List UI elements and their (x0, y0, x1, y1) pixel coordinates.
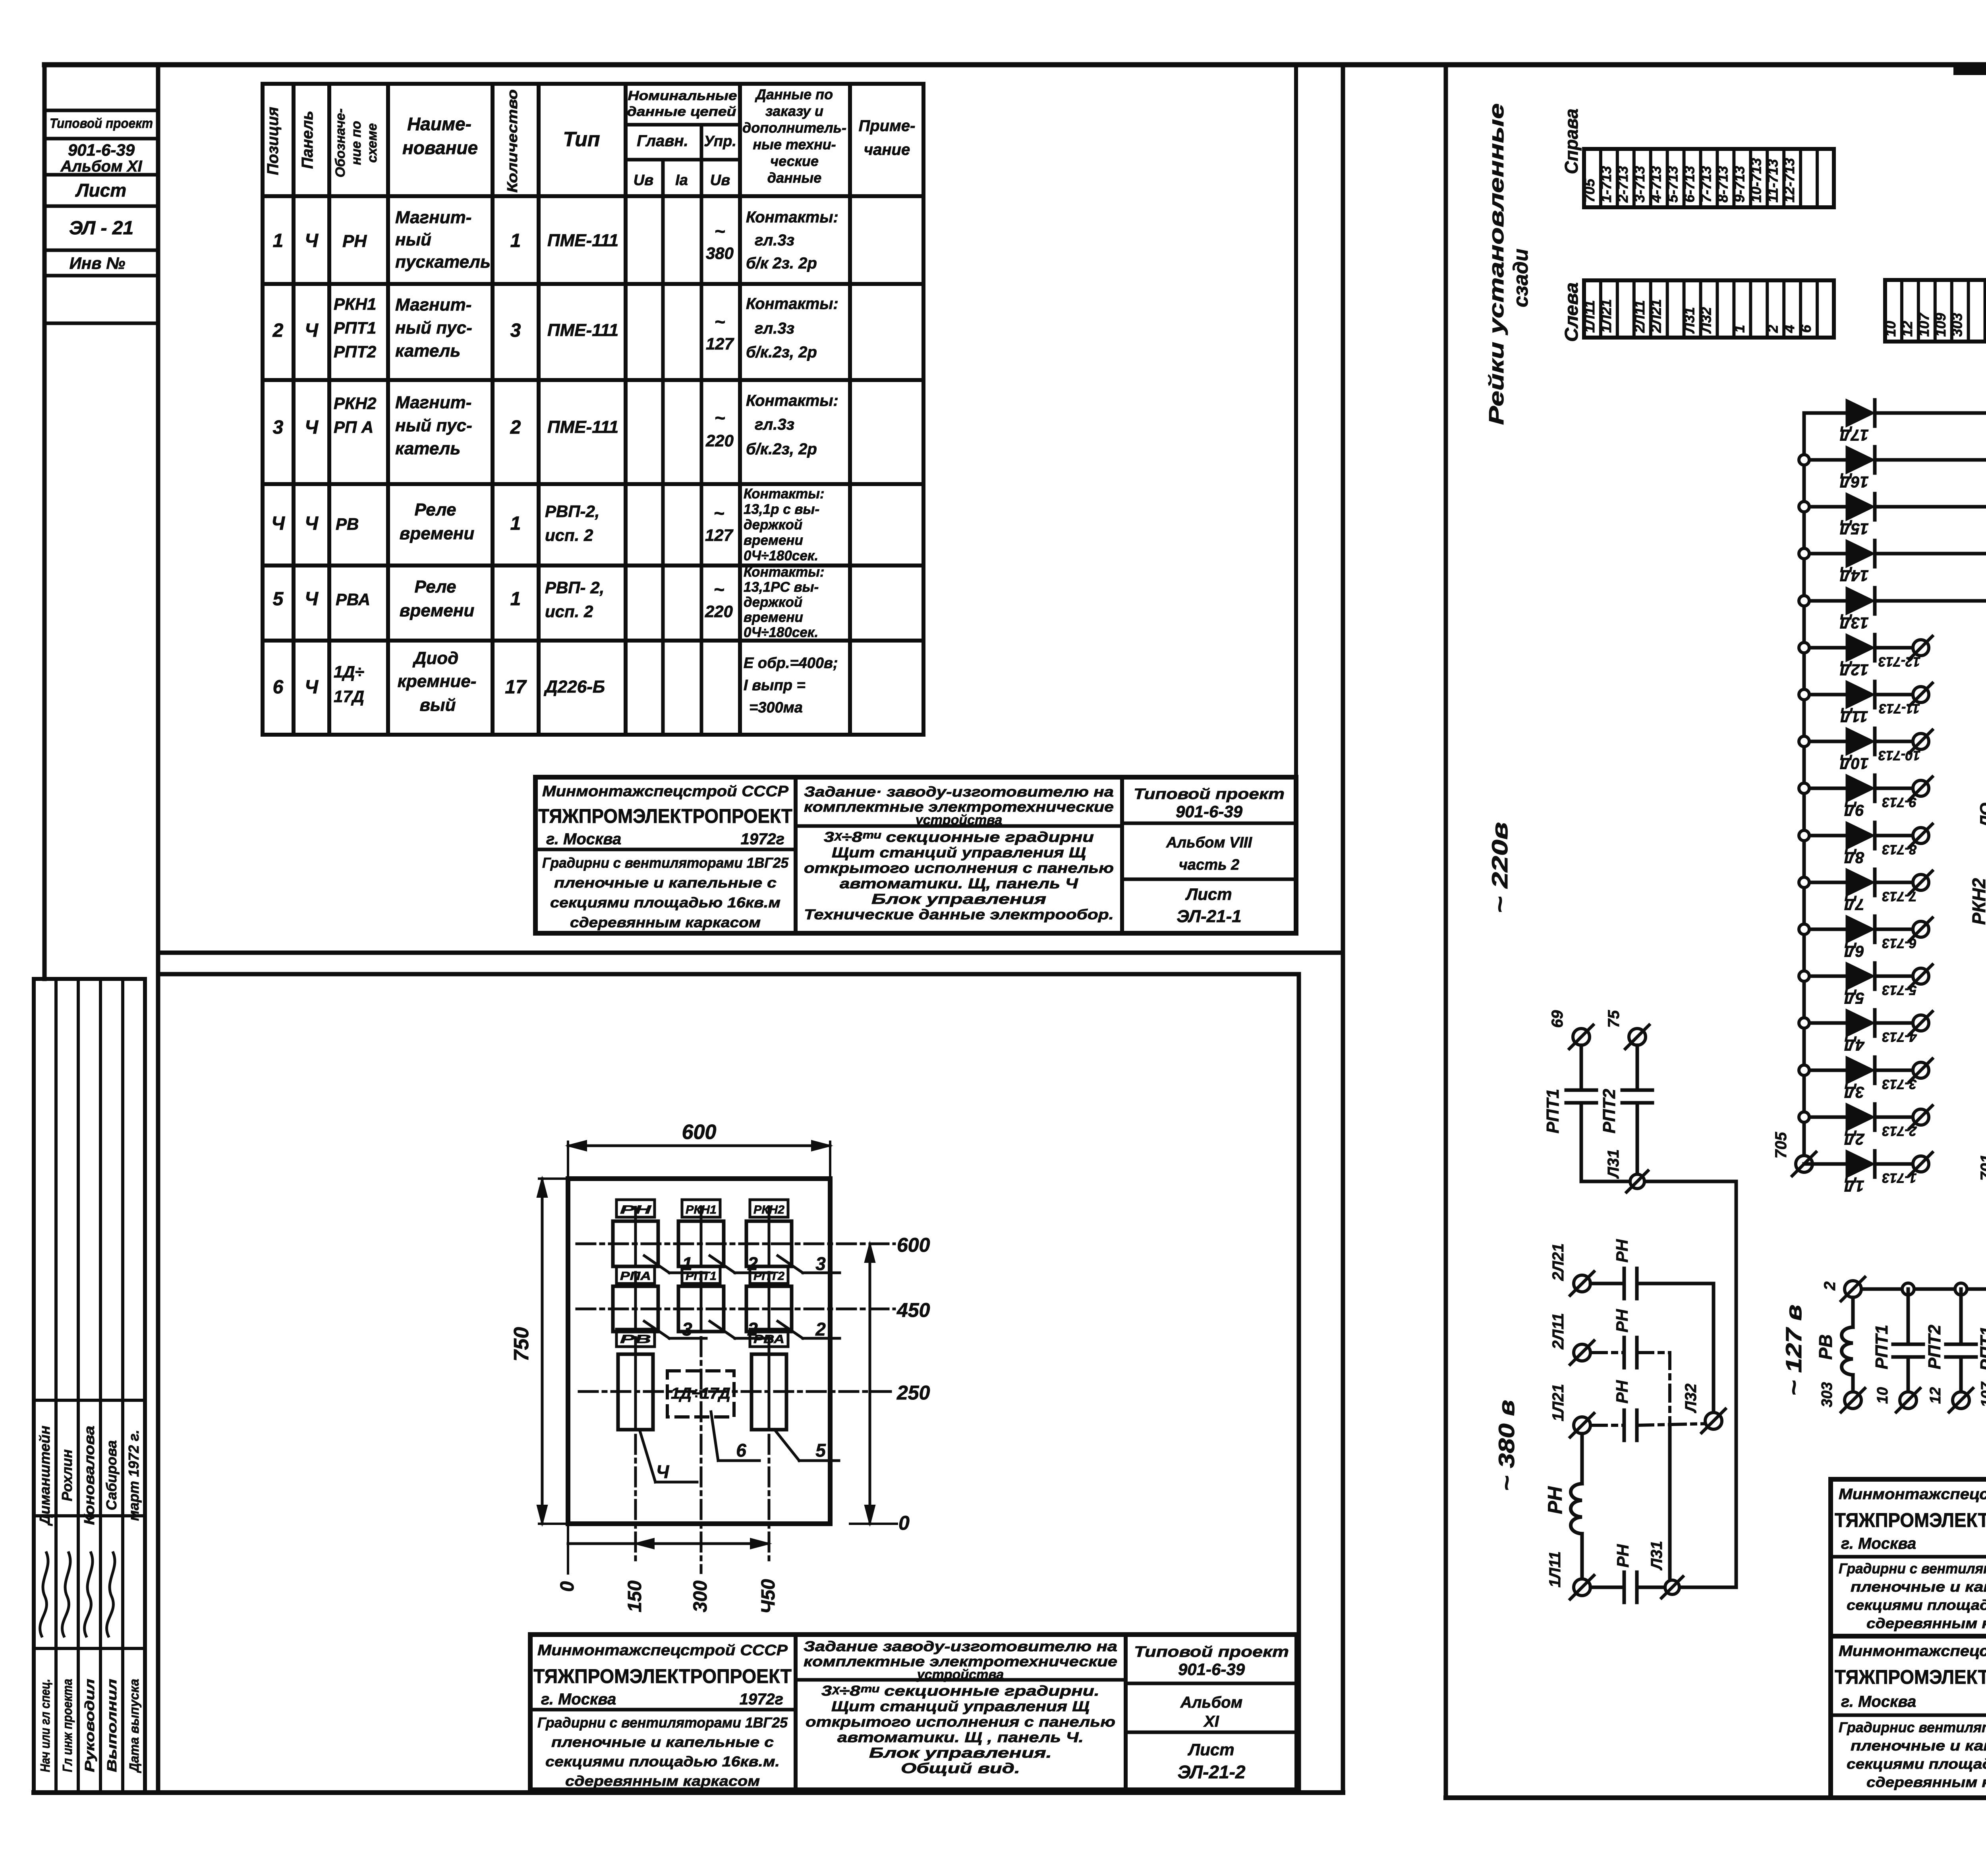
svg-text:РН: РН (1613, 1239, 1631, 1262)
wire 12Д to terminal 12-713 (1875, 646, 1913, 650)
svg-text:Тип: Тип (563, 128, 600, 151)
svg-text:держкой: держкой (744, 594, 802, 610)
svg-text:4-713: 4-713 (1882, 1029, 1917, 1044)
left half bottom border (34, 1790, 1343, 1795)
svg-text:Ч: Ч (305, 230, 319, 251)
svg-text:1-713: 1-713 (1598, 166, 1614, 203)
svg-text:Магнит-: Магнит- (395, 295, 471, 315)
svg-text:пленочные и капельные с: пленочные и капельные с (1851, 1579, 1986, 1595)
svg-text:Общий вид.: Общий вид. (901, 1760, 1020, 1776)
svg-text:107: 107 (1916, 312, 1932, 337)
panel component РКН2 (pos.3) (750, 1200, 788, 1217)
svg-text:Градирни с вентиляторами 1ВГ25: Градирни с вентиляторами 1ВГ25 (542, 855, 789, 871)
svg-text:РН: РН (1613, 1309, 1631, 1332)
svg-text:127: 127 (706, 334, 734, 353)
svg-text:75: 75 (1605, 1010, 1623, 1028)
svg-text:10: 10 (1874, 1387, 1891, 1404)
terminal 69 with contact РПТ1 (1573, 1029, 1590, 1045)
svg-text:1Л11: 1Л11 (1581, 300, 1598, 333)
right frame borders (1444, 65, 1448, 1798)
panel outline 600x750 (568, 1179, 830, 1524)
svg-text:7-713: 7-713 (1698, 166, 1714, 203)
svg-text:12: 12 (1899, 321, 1915, 337)
svg-text:15Д: 15Д (1839, 520, 1868, 537)
wire 9Д to terminal 9-713 (1875, 787, 1913, 790)
position leader 4 (РВ) (639, 1430, 655, 1482)
svg-text:РКН1: РКН1 (686, 1203, 717, 1216)
svg-text:секциями площадью 16кв. м: секциями площадью 16кв. м (1847, 1756, 1986, 1772)
svg-text:РН: РН (620, 1203, 652, 1216)
svg-text:устройства: устройства (916, 1667, 1004, 1682)
svg-text:9-713: 9-713 (1731, 166, 1747, 203)
svg-text:заказу и: заказу и (765, 103, 823, 119)
svg-text:Блок управления.: Блок управления. (869, 1745, 1052, 1761)
svg-text:127: 127 (705, 526, 734, 544)
svg-text:Задание· заводу-изготовителю н: Задание· заводу-изготовителю на (804, 784, 1114, 800)
svg-text:9Д: 9Д (1844, 801, 1864, 819)
svg-text:Щит станций управления Щ: Щит станций управления Щ (832, 844, 1086, 861)
svg-text:РПТ2: РПТ2 (334, 342, 376, 361)
svg-text:данные: данные (767, 170, 822, 186)
diode 10Д (1804, 740, 1847, 743)
panel component РКН1 (pos.2) (682, 1200, 720, 1217)
svg-text:2: 2 (1821, 1282, 1839, 1291)
diode 11Д (1804, 693, 1847, 697)
svg-text:12: 12 (1927, 1387, 1944, 1404)
signatures (squiggles) (40, 1553, 48, 1636)
svg-text:Дата выпуска: Дата выпуска (127, 1679, 141, 1774)
svg-text:Лист: Лист (75, 180, 126, 201)
svg-text:исп. 2: исп. 2 (545, 602, 593, 621)
svg-text:303: 303 (1949, 313, 1965, 337)
svg-text:6: 6 (1798, 324, 1814, 333)
svg-text:10: 10 (1882, 321, 1899, 337)
svg-text:Позиция: Позиция (264, 107, 282, 175)
svg-text:~: ~ (715, 407, 725, 428)
svg-text:Ч: Ч (305, 589, 319, 610)
svg-text:ПМЕ-111: ПМЕ-111 (547, 231, 618, 250)
svg-text:Ч: Ч (305, 417, 319, 438)
wire 5Д to terminal 5-713 (1875, 975, 1913, 978)
diode 17Д (1804, 411, 1847, 415)
svg-text:2: 2 (747, 1319, 758, 1339)
svg-text:РКН2: РКН2 (753, 1203, 784, 1216)
wire 6Д to terminal 6-713 (1875, 928, 1913, 931)
svg-text:300: 300 (690, 1581, 711, 1612)
svg-text:6-713: 6-713 (1882, 936, 1916, 951)
panel component РПА (pos.3) (616, 1266, 655, 1283)
svg-text:12Д: 12Д (1839, 661, 1868, 678)
svg-text:данные цепей: данные цепей (627, 104, 736, 119)
wire 3Д to terminal 3-713 (1875, 1069, 1913, 1072)
svg-text:сдеревянным каркасом: сдеревянным каркасом (570, 914, 761, 930)
svg-text:б/к.2з, 2р: б/к.2з, 2р (746, 344, 817, 361)
svg-text:3ᵡ÷8ᵐᵘ секционные градирни: 3ᵡ÷8ᵐᵘ секционные градирни (824, 829, 1094, 845)
svg-text:Минмонтажспецстрой СССР: Минмонтажспецстрой СССР (1839, 1486, 1986, 1503)
svg-text:1Л11: 1Л11 (1546, 1551, 1564, 1587)
svg-text:Выполнил: Выполнил (104, 1679, 119, 1772)
svg-text:1Д: 1Д (1844, 1177, 1864, 1195)
svg-text:7Д: 7Д (1844, 896, 1864, 913)
svg-text:0Ч÷180сек.: 0Ч÷180сек. (744, 548, 818, 564)
svg-text:пускатель: пускатель (395, 252, 491, 272)
svg-text:~: ~ (715, 311, 725, 332)
svg-text:Альбом: Альбом (1180, 1694, 1242, 1711)
svg-text:устройства: устройства (915, 813, 1003, 828)
svg-text:220: 220 (705, 602, 733, 621)
svg-text:4-713: 4-713 (1648, 166, 1664, 203)
svg-text:5-713: 5-713 (1665, 166, 1681, 203)
svg-text:Альбом XI: Альбом XI (60, 158, 142, 175)
svg-text:Градирнис вентиляторами 1ВГ25: Градирнис вентиляторами 1ВГ25 (1839, 1719, 1986, 1735)
svg-text:РПТ1: РПТ1 (1977, 1326, 1986, 1371)
svg-text:2-713: 2-713 (1882, 1123, 1917, 1139)
svg-text:пленочные и капельные с: пленочные и капельные с (1851, 1737, 1986, 1754)
title block ЭЛ-21-2 frame (530, 1635, 1297, 1790)
svg-text:РВ: РВ (620, 1333, 651, 1346)
terminal 2 (1845, 1281, 1861, 1297)
svg-text:г. Москва: г. Москва (1841, 1535, 1916, 1552)
svg-text:Панель: Панель (299, 111, 316, 169)
signature table box (34, 979, 145, 1793)
svg-text:1Л21: 1Л21 (1598, 299, 1614, 333)
terminal Л32 (1705, 1413, 1722, 1429)
panel component РН (pos.1) (616, 1200, 655, 1217)
svg-text:Контакты:: Контакты: (744, 564, 825, 580)
svg-text:11Д: 11Д (1840, 708, 1868, 725)
svg-text:Гл инж проекта: Гл инж проекта (60, 1679, 75, 1772)
svg-text:ПМЕ-111: ПМЕ-111 (547, 320, 618, 340)
terminal 1Л21 dash-dot line with contact РН to Л32 (1574, 1417, 1590, 1434)
svg-text:150: 150 (624, 1581, 645, 1612)
svg-text:Типовой проект: Типовой проект (1134, 786, 1285, 803)
svg-text:РП А: РП А (334, 418, 373, 436)
svg-text:7-713: 7-713 (1882, 889, 1916, 904)
svg-text:вый: вый (419, 695, 456, 715)
svg-text:4Д: 4Д (1844, 1036, 1864, 1054)
svg-text:600: 600 (682, 1121, 717, 1144)
svg-text:Количество: Количество (504, 89, 520, 193)
terminal strip left group 1 (1584, 280, 1834, 338)
terminal strip right (Справа) 705,1-713..12-713 (1584, 149, 1834, 207)
svg-text:109: 109 (1932, 313, 1949, 337)
svg-text:2: 2 (1764, 325, 1781, 333)
svg-text:2Д: 2Д (1844, 1130, 1864, 1148)
svg-text:0: 0 (898, 1512, 910, 1534)
svg-text:901-6-39: 901-6-39 (1178, 1660, 1245, 1679)
diode 1Д (1804, 1162, 1847, 1166)
svg-text:Л31: Л31 (1648, 1541, 1665, 1571)
position leaders row1 (644, 1256, 669, 1273)
svg-text:2Л11: 2Л11 (1549, 1313, 1567, 1349)
svg-text:Блок управления: Блок управления (871, 891, 1046, 907)
svg-text:ный пус-: ный пус- (395, 318, 472, 338)
svg-text:открытого исполнения с панель: открытого исполнения с панелью (806, 1714, 1115, 1730)
node Л31 horizontal link (1581, 1180, 1736, 1183)
wire Л31 riser down to 1Л11 row (1735, 1181, 1738, 1587)
svg-text:Ч50: Ч50 (758, 1579, 779, 1614)
svg-text:РПТ1: РПТ1 (1872, 1325, 1891, 1369)
svg-text:250: 250 (896, 1382, 930, 1404)
svg-text:10-713: 10-713 (1748, 158, 1764, 203)
wire 16Д down to 743 (1875, 460, 1986, 1025)
svg-text:автоматики. Щ, панель Ч: автоматики. Щ, панель Ч (840, 875, 1079, 892)
svg-text:РПТ1: РПТ1 (334, 318, 376, 337)
svg-text:3ᵡ÷8ᵐᵘ секционные градирни.: 3ᵡ÷8ᵐᵘ секционные градирни. (821, 1683, 1099, 1699)
svg-text:Наиме-: Наиме- (407, 114, 471, 134)
position leader 5 (РВА) (775, 1430, 799, 1461)
svg-text:сзади: сзади (1509, 249, 1532, 307)
svg-text:РН: РН (1544, 1486, 1566, 1514)
svg-text:380: 380 (706, 244, 734, 262)
svg-text:ТЯЖПРОМЭЛЕКТРОПРОЕКТ: ТЯЖПРОМЭЛЕКТРОПРОЕКТ (533, 1665, 792, 1687)
svg-text:кремние-: кремние- (398, 672, 477, 691)
contact РПТ2 column to terminal 12 (1959, 1289, 1963, 1344)
svg-text:РН: РН (342, 232, 367, 251)
svg-text:Номинальные: Номинальные (628, 88, 737, 103)
svg-text:901-6-39: 901-6-39 (68, 141, 135, 159)
title block ЭЛ-21 row lines (1831, 1714, 1986, 1717)
svg-text:чание: чание (864, 141, 910, 158)
svg-text:Минмонтажспецстрой СССР: Минмонтажспецстрой СССР (1839, 1643, 1986, 1660)
svg-text:Контакты:: Контакты: (746, 295, 838, 313)
svg-text:Минмонтажспецстрой СССР: Минмонтажспецстрой СССР (542, 783, 789, 800)
wire 13Д to terminal 717 (with jog) (1875, 601, 1986, 1025)
svg-text:РКН1: РКН1 (334, 295, 377, 313)
svg-text:11-713: 11-713 (1879, 701, 1920, 716)
svg-text:Uв: Uв (710, 172, 730, 189)
svg-text:Контакты:: Контакты: (746, 208, 838, 226)
svg-text:ческие: ческие (770, 153, 819, 169)
svg-text:Руководил: Руководил (82, 1679, 97, 1772)
svg-text:3Д: 3Д (1844, 1083, 1864, 1101)
svg-text:катель: катель (395, 439, 460, 458)
diode 14Д (1804, 552, 1847, 556)
svg-text:901-6-39: 901-6-39 (1176, 802, 1243, 821)
svg-text:9-713: 9-713 (1882, 795, 1916, 810)
svg-text:Щит станций управления Щ: Щит станций управления Щ (831, 1698, 1090, 1714)
svg-text:ние по: ние по (349, 121, 364, 165)
svg-text:секциями площадью 16 кв. м: секциями площадью 16 кв. м (1847, 1597, 1986, 1613)
diode 5Д (1804, 975, 1847, 978)
svg-text:Ч: Ч (305, 677, 319, 698)
svg-text:Коновалова: Коновалова (81, 1426, 97, 1525)
svg-text:Контакты:: Контакты: (744, 486, 825, 502)
svg-text:открытого исполнения с панель: открытого исполнения с панелью (804, 860, 1114, 876)
svg-text:Л32: Л32 (1682, 1384, 1700, 1413)
svg-text:Д226-Б: Д226-Б (543, 677, 605, 697)
terminal 705 (1796, 1156, 1812, 1172)
svg-text:705: 705 (1772, 1132, 1790, 1158)
svg-text:1: 1 (510, 513, 521, 534)
svg-text:220: 220 (705, 431, 734, 450)
svg-text:Сабирова: Сабирова (103, 1440, 120, 1510)
svg-text:РВП- 2,: РВП- 2, (545, 578, 604, 597)
svg-text:РВ: РВ (1815, 1334, 1836, 1360)
svg-text:5-713: 5-713 (1882, 982, 1916, 998)
svg-text:3: 3 (510, 320, 521, 341)
svg-text:107: 107 (1978, 1381, 1986, 1407)
svg-text:1: 1 (1731, 325, 1747, 333)
svg-text:12-713: 12-713 (1878, 654, 1920, 669)
svg-text:2Л21: 2Л21 (1648, 299, 1664, 333)
svg-text:ный пус-: ный пус- (395, 416, 472, 435)
wire 17Д down to 745 (1875, 413, 1986, 1025)
contact РПТ1 column to terminal 10 (1907, 1289, 1910, 1344)
svg-text:держкой: держкой (744, 517, 802, 533)
terminal 2Л11 dashed line with contact РН (1574, 1344, 1590, 1361)
svg-text:16Д: 16Д (1839, 473, 1868, 490)
svg-text:450: 450 (896, 1299, 930, 1321)
svg-text:4: 4 (1781, 325, 1797, 333)
svg-text:Лист: Лист (1187, 1740, 1234, 1759)
svg-text:РН: РН (1613, 1380, 1631, 1403)
diode 8Д (1804, 834, 1847, 838)
svg-text:б/к.2з, 2р: б/к.2з, 2р (746, 440, 817, 458)
wire from 2Л11 branch down to node Л31 (1668, 1426, 1672, 1579)
dimension 600 top (568, 1145, 830, 1147)
svg-text:РВП-2,: РВП-2, (545, 502, 600, 521)
svg-text:1: 1 (273, 230, 284, 251)
svg-text:Градирни с вентиляторами 1ВГ25: Градирни с вентиляторами 1ВГ25 (537, 1714, 788, 1731)
svg-text:гл.3з: гл.3з (755, 232, 794, 249)
diode 16Д (1804, 458, 1847, 462)
wire 2Д to terminal 2-713 (1875, 1116, 1913, 1119)
svg-text:303: 303 (1819, 1382, 1835, 1407)
svg-text:РН: РН (1613, 1544, 1632, 1567)
relay coil РН between 1Л21 and 1Л11 (1580, 1434, 1584, 1484)
left strip cell lines (44, 109, 158, 112)
svg-text:1Д÷17Д: 1Д÷17Д (671, 1385, 730, 1402)
svg-text:сдеревянным каркасом: сдеревянным каркасом (1866, 1615, 1986, 1631)
svg-text:2: 2 (815, 1319, 826, 1339)
diode 9Д (1804, 787, 1847, 790)
svg-text:2: 2 (272, 320, 284, 341)
svg-text:Инв №: Инв № (70, 254, 126, 272)
svg-text:1972г: 1972г (740, 1691, 783, 1708)
svg-text:17Д: 17Д (1839, 426, 1868, 444)
wire 4Д to terminal 4-713 (1875, 1021, 1913, 1025)
svg-text:3: 3 (682, 1319, 692, 1339)
svg-text:г. Москва: г. Москва (1841, 1693, 1916, 1710)
panel component РВА (pos.5) (750, 1329, 788, 1347)
svg-text:Uв: Uв (634, 172, 653, 189)
svg-text:исп. 2: исп. 2 (545, 526, 593, 544)
svg-text:ПМЕ-111: ПМЕ-111 (547, 417, 618, 437)
svg-text:сдеревянным каркасом: сдеревянным каркасом (1866, 1774, 1986, 1790)
upper-left frame lines (1294, 65, 1298, 933)
svg-text:РВА: РВА (336, 590, 370, 609)
svg-text:2Л21: 2Л21 (1549, 1243, 1567, 1281)
panel diodes group 1Д÷17Д (pos.6) dashed box (667, 1371, 734, 1417)
127в bus (1853, 1287, 1986, 1291)
svg-text:РПТ2: РПТ2 (1925, 1324, 1944, 1369)
diode 3Д (1804, 1069, 1847, 1072)
svg-text:1: 1 (510, 589, 521, 610)
svg-text:гл.3з: гл.3з (755, 320, 794, 337)
svg-text:~ 220в: ~ 220в (1487, 822, 1512, 913)
panel component РПТ2 (pos.2) (750, 1266, 788, 1283)
diode 15Д (1804, 505, 1847, 509)
svg-text:ные техни-: ные техни- (753, 136, 836, 152)
wire 7Д to terminal 7-713 (1875, 881, 1913, 884)
svg-text:Контакты:: Контакты: (746, 392, 838, 409)
diode 2Д (1804, 1116, 1847, 1119)
svg-text:6-713: 6-713 (1681, 166, 1698, 203)
svg-text:Диманштейн: Диманштейн (37, 1426, 53, 1526)
wire 10Д to terminal 10-713 (1875, 740, 1913, 743)
dimension 750 left (541, 1179, 544, 1524)
wire 11Д to terminal 11-713 (1875, 693, 1913, 697)
diode 6Д (1804, 928, 1847, 931)
svg-text:5: 5 (815, 1440, 826, 1461)
svg-text:10Д: 10Д (1839, 755, 1868, 772)
svg-text:РКН2: РКН2 (1969, 878, 1986, 925)
svg-text:Iа: Iа (675, 172, 688, 189)
terminal strip left group 2 (1885, 280, 1986, 342)
svg-text:Ч: Ч (656, 1461, 670, 1482)
svg-text:Типовой проект: Типовой проект (50, 116, 153, 131)
svg-text:0Ч÷180сек.: 0Ч÷180сек. (744, 625, 818, 640)
wire 1Д to terminal 1-713 (1875, 1162, 1913, 1166)
svg-text:ЭЛ-21-2: ЭЛ-21-2 (1178, 1762, 1246, 1782)
svg-text:Технические данные электрооб: Технические данные электрообор. (804, 906, 1114, 923)
svg-text:2Л11: 2Л11 (1631, 300, 1648, 333)
svg-text:Ч: Ч (271, 513, 285, 534)
svg-text:17Д: 17Д (334, 687, 364, 706)
svg-text:Альбом VIII: Альбом VIII (1166, 834, 1253, 851)
svg-text:~: ~ (714, 579, 724, 600)
terminal 2Л21 line with contact РН to Л32 (1574, 1275, 1590, 1292)
svg-text:13,1р с вы-: 13,1р с вы- (744, 502, 819, 517)
svg-text:ЭЛ - 21: ЭЛ - 21 (69, 218, 133, 239)
svg-text:март 1972 г.: март 1972 г. (126, 1430, 142, 1521)
svg-text:РКН2: РКН2 (334, 394, 377, 413)
panel component РПТ1 (pos.2) (682, 1266, 720, 1283)
diode 4Д (1804, 1021, 1847, 1025)
position leaders row2 (644, 1321, 669, 1338)
svg-text:нование: нование (402, 137, 478, 158)
svg-text:8-713: 8-713 (1714, 166, 1731, 203)
svg-text:сдеревянным каркасом: сдеревянным каркасом (565, 1773, 760, 1789)
svg-text:Рейки установленные: Рейки установленные (1485, 103, 1508, 425)
diode 12Д (1804, 646, 1847, 650)
terminal 75 with contact РПТ2 (1629, 1029, 1646, 1045)
svg-text:12-713: 12-713 (1781, 158, 1797, 203)
svg-text:1: 1 (510, 230, 521, 251)
svg-text:часть 2: часть 2 (1179, 857, 1239, 873)
svg-text:ТЯЖПРОМЭЛЕКТРОПРОЕКТ: ТЯЖПРОМЭЛЕКТРОПРОЕКТ (1835, 1666, 1986, 1688)
svg-text:пленочные и капельные с: пленочные и капельные с (551, 1734, 774, 1750)
right dimension ladder 600/450/250/0 (869, 1244, 871, 1524)
svg-text:5Д: 5Д (1844, 989, 1864, 1007)
svg-text:3: 3 (815, 1253, 826, 1274)
svg-text:6Д: 6Д (1844, 942, 1864, 960)
svg-text:=300ма: =300ма (749, 699, 803, 716)
column centerlines dash-dot (634, 1207, 637, 1565)
parts list table grid (261, 84, 265, 735)
svg-text:ный: ный (395, 230, 431, 249)
svg-text:гл.3з: гл.3з (755, 416, 794, 433)
svg-text:времени: времени (400, 524, 475, 543)
diode 7Д (1804, 881, 1847, 884)
svg-text:14Д: 14Д (1839, 567, 1868, 584)
svg-text:5: 5 (273, 589, 284, 610)
panel component РВ (pos.4) (616, 1329, 655, 1347)
svg-text:3-713: 3-713 (1882, 1077, 1916, 1092)
svg-text:~ 380 в: ~ 380 в (1494, 1400, 1519, 1491)
wire 14Д down to 719 (1875, 554, 1986, 1025)
